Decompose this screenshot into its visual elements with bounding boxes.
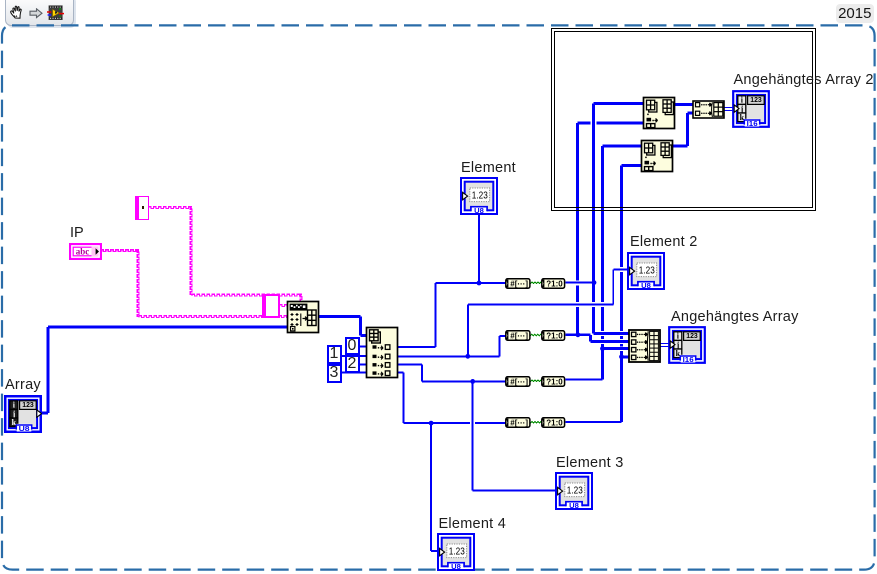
wire string-to-array output xyxy=(318,315,361,318)
function node: Boolean to 1,0 (pair 4) xyxy=(540,416,566,429)
wire index-array output row1 xyxy=(398,346,436,348)
svg-text:U8: U8 xyxy=(18,423,29,432)
wire node A output to build-array C xyxy=(674,103,694,106)
wire string: vertical drop xyxy=(190,207,192,295)
wire to replace-node A input row3 (left) xyxy=(578,122,591,125)
numeric constant 2 xyxy=(345,355,360,374)
wire string-to-array output drop xyxy=(359,317,362,336)
wire into index-array input xyxy=(361,334,368,337)
wire to replace-node A input row3 (right) xyxy=(596,122,643,125)
wire into pair2 xyxy=(500,335,506,337)
indicator terminal Angehaengtes Array xyxy=(668,326,706,364)
wire string: IP vertical drop xyxy=(137,250,139,317)
wire Element 4 feed drop xyxy=(430,423,432,551)
wire index-array output row2 xyxy=(398,355,500,357)
wire string: horizontal to node xyxy=(192,294,302,296)
wire into pair4 (left) xyxy=(403,422,470,424)
svg-text:1.23: 1.23 xyxy=(472,190,488,201)
wire index-array row4 drop xyxy=(402,373,404,424)
svg-text:abc: abc xyxy=(75,246,89,256)
string control terminal IP xyxy=(69,243,102,260)
wire boolean: pair 2 xyxy=(530,334,542,336)
wire into pair4 (right) xyxy=(475,422,506,424)
wire pair2 output xyxy=(566,334,591,336)
function node: Boolean to 1,0 (pair 2) xyxy=(540,329,566,342)
wire junction xyxy=(576,332,581,337)
wire pair3 output xyxy=(566,378,603,380)
wire build-array D row4 input xyxy=(622,355,630,358)
wire junction xyxy=(619,354,624,359)
wire into pair3 xyxy=(422,380,506,382)
wire build-array row2 step xyxy=(589,335,592,342)
label Element 2 xyxy=(630,234,698,250)
indicator terminal Element xyxy=(460,177,498,215)
svg-text:?1:0: ?1:0 xyxy=(547,377,564,386)
numeric constant 0 xyxy=(345,337,360,356)
wire string: IP to node xyxy=(139,316,289,318)
numeric constant 1 xyxy=(327,345,342,365)
wire to replace-node A input row1 xyxy=(594,102,644,105)
wire net pair1: vertical node A row1 / build-array row1 xyxy=(592,104,595,334)
wire index-array output row3 xyxy=(398,363,422,365)
svg-text:U8: U8 xyxy=(451,562,461,571)
function node: Replace Array Subset A xyxy=(642,96,676,130)
wire Array control riser xyxy=(47,327,50,413)
svg-text:U8: U8 xyxy=(641,281,651,290)
indicator terminal Element 2 xyxy=(627,252,665,290)
wire Element indicator feed xyxy=(478,215,480,283)
toolbar hand (pan) tool icon xyxy=(9,4,26,21)
wire build-array D row1 input xyxy=(594,332,630,335)
label Element 4 xyxy=(439,516,507,532)
svg-text:?1:0: ?1:0 xyxy=(547,279,564,288)
wire junction xyxy=(470,379,475,384)
wire junction xyxy=(477,281,482,286)
wire string: IP output xyxy=(101,250,139,252)
svg-text:#[···]: #[···] xyxy=(510,331,528,340)
wire constant 0 to index xyxy=(359,346,367,348)
decoration frame (inner) xyxy=(554,31,813,208)
wire junction xyxy=(600,346,605,351)
function node: Build Array D xyxy=(628,329,661,363)
function node: Index Array xyxy=(365,326,399,379)
function node: Boolean to 1,0 (pair 1) xyxy=(540,277,566,290)
svg-text:1.23: 1.23 xyxy=(449,546,465,557)
svg-text:123: 123 xyxy=(22,400,34,409)
wire Element 2 feed riser 2 xyxy=(612,270,614,305)
svg-text:#[···]: #[···] xyxy=(510,419,528,428)
svg-text:U8: U8 xyxy=(474,206,484,215)
wire net pair2: vertical to node A input row3 xyxy=(576,123,579,335)
function node: Replace Array Subset B xyxy=(640,139,674,173)
wire 2D array: build-array C to Angehaengtes Array 2 indicator xyxy=(724,107,734,109)
wire Element 3 feed drop xyxy=(472,381,474,490)
toolbar run/step arrow icon xyxy=(29,8,43,19)
string constant "." xyxy=(135,196,149,220)
wire index-array row1 riser xyxy=(435,283,437,347)
wire string: short drop into node top xyxy=(300,294,302,302)
label Angehängtes Array xyxy=(671,309,799,325)
control terminal Array xyxy=(4,395,42,433)
wire net pair4: vertical node B row3 / build-array row4 xyxy=(620,166,623,423)
wire index-array row3 drop xyxy=(421,364,423,381)
wire pair1 output xyxy=(566,282,595,284)
svg-text:#[···]: #[···] xyxy=(510,279,528,288)
wire into Element 4 terminal xyxy=(431,550,438,552)
wire from Array control xyxy=(42,412,48,415)
wire build-array D row2 input xyxy=(591,340,630,343)
decoration frame (outer) xyxy=(551,28,816,211)
svg-text:?1:0: ?1:0 xyxy=(547,419,564,428)
indicator terminal Element 4 xyxy=(437,533,475,571)
numeric constant 3 xyxy=(327,364,342,384)
wire Element 2 feed horizontal xyxy=(468,304,614,306)
svg-text:#[···]: #[···] xyxy=(510,377,528,386)
wire 2D array: build-array D to Angehaengtes Array indicator xyxy=(660,343,670,345)
wire string: empty-constant to node xyxy=(280,305,289,307)
svg-text:?1:0: ?1:0 xyxy=(547,331,564,340)
wire junction xyxy=(465,354,470,359)
indicator terminal Angehaengtes Array 2 xyxy=(732,90,770,128)
wire node B output xyxy=(673,144,688,147)
wire build-array D row3 input xyxy=(603,347,630,350)
label Angehängtes Array 2 xyxy=(734,72,874,88)
wire into pair1 xyxy=(436,282,507,284)
svg-text:U8: U8 xyxy=(569,501,579,510)
toolbar tab background xyxy=(5,0,74,26)
svg-text:1.23: 1.23 xyxy=(639,265,655,276)
function node: Empty Array? (pair 3) xyxy=(504,375,532,388)
wire constant 2 to index xyxy=(359,363,367,365)
wire node B output to build-array C row2 xyxy=(688,111,694,114)
function node: Empty Array? (pair 4) xyxy=(504,416,532,429)
wire constant 1 to index xyxy=(341,355,367,357)
function node: Spreadsheet String To Array xyxy=(286,300,320,334)
label Element xyxy=(461,160,516,176)
wire to replace-node B input row1 xyxy=(603,144,643,147)
toolbar VI film-strip icon xyxy=(47,5,64,21)
wire boolean: pair 3 xyxy=(530,380,542,382)
svg-text:123: 123 xyxy=(750,95,762,104)
function node: Empty Array? (pair 1) xyxy=(504,277,532,290)
svg-text:I16: I16 xyxy=(747,118,758,127)
function node: Empty Array? (pair 2) xyxy=(504,329,532,342)
2015 version tag xyxy=(836,4,874,23)
string constant (empty delimiter) xyxy=(262,294,281,318)
label IP xyxy=(70,225,84,241)
wire into Element 3 terminal xyxy=(473,490,556,492)
wire constant 3 to index xyxy=(341,372,367,374)
wire net pair3: vertical node B row1 / build-array row3 xyxy=(601,146,604,379)
wire string: dot-constant output xyxy=(149,207,193,209)
svg-text:123: 123 xyxy=(686,331,698,340)
label Array xyxy=(5,377,41,393)
svg-text:1.23: 1.23 xyxy=(566,485,582,496)
wire boolean: pair 1 xyxy=(530,282,542,284)
function node: Boolean to 1,0 (pair 3) xyxy=(540,375,566,388)
wire to replace-node B input row3 xyxy=(622,164,643,167)
label Element 3 xyxy=(556,455,624,471)
wire index-array output row4 xyxy=(398,372,403,374)
wire node B output riser xyxy=(686,113,689,146)
wire pair4 output xyxy=(566,421,622,423)
function node: Build Array C xyxy=(692,100,725,119)
wire boolean: pair 4 xyxy=(530,422,542,424)
wire junction xyxy=(592,280,597,285)
wire pair2 input riser xyxy=(499,336,501,357)
wire into Element 2 terminal xyxy=(613,269,628,271)
wire Array control to string-to-array node xyxy=(48,326,289,329)
wire Element 2 feed riser xyxy=(467,305,469,357)
wire junction xyxy=(429,421,434,426)
indicator terminal Element 3 xyxy=(555,472,593,510)
svg-text:I16: I16 xyxy=(682,355,693,364)
